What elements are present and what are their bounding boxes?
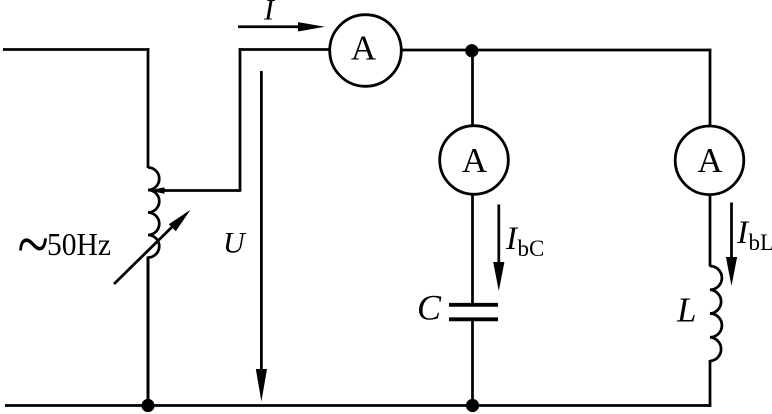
wire: right vertical drop to ammeter A3 (709, 49, 712, 127)
wire: A3 down to inductor (709, 195, 712, 267)
label L (676, 291, 696, 330)
junction: capacitor branch at bottom bus (466, 399, 479, 412)
capacitor C bottom plate (449, 317, 498, 321)
svg-text:L: L (676, 291, 696, 330)
wire: inductor to bottom bus (709, 360, 712, 407)
label ~50Hz (18, 204, 112, 285)
current arrow IbC (493, 205, 504, 292)
wire: source bottom vertical (147, 257, 150, 407)
wire: capacitor to bottom bus (471, 321, 474, 406)
autotransformer T1 winding (variable, tapped) (148, 168, 159, 258)
wire: left vertical down to autotransformer top (147, 48, 150, 168)
svg-text:bL: bL (749, 230, 772, 255)
wire: A1 to top node and right corner (401, 49, 712, 52)
label IbC (505, 221, 544, 261)
label I (263, 0, 276, 27)
svg-text:bC: bC (518, 236, 545, 261)
inductor L winding (710, 266, 722, 361)
svg-text:C: C (417, 288, 442, 328)
node: top junction (465, 44, 478, 57)
svg-text:I: I (263, 0, 276, 27)
svg-text:A: A (462, 141, 488, 180)
wire: tap riser vertical (239, 48, 242, 192)
junction: source at bottom bus (141, 399, 154, 412)
svg-text:U: U (223, 227, 247, 260)
wire: top-left horizontal from left edge to source (3, 48, 149, 51)
wire: tap to ammeter A1 (239, 48, 330, 51)
wire: A2 down to capacitor (471, 194, 474, 303)
ammeter A1 (330, 15, 402, 87)
svg-text:A: A (351, 29, 377, 68)
capacitor C top plate (449, 303, 498, 307)
voltage arrow U (256, 71, 267, 402)
wiper tap arrow touching winding (149, 187, 241, 193)
wire: bottom bus (5, 404, 711, 407)
svg-text:50Hz: 50Hz (47, 226, 111, 262)
label C (417, 288, 442, 328)
ammeter A2 (440, 126, 509, 195)
current arrow IbL (726, 203, 737, 287)
svg-text:A: A (697, 141, 723, 180)
ammeter A3 (675, 126, 744, 195)
svg-text:~: ~ (18, 204, 49, 285)
label U (223, 227, 247, 260)
wire: node down to ammeter A2 (471, 50, 474, 127)
variable adjustment arrow through winding (114, 210, 191, 284)
label IbL (736, 215, 772, 255)
current arrow I (238, 22, 325, 31)
